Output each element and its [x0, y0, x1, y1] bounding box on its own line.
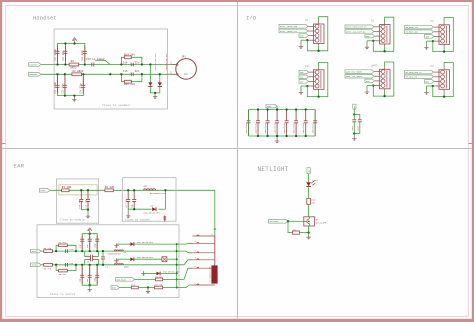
svg-text:10uF: 10uF: [351, 125, 354, 131]
svg-text:P8: P8: [431, 65, 435, 68]
wire up rail: [81, 233, 98, 253]
svg-text:DISPL_TOUCH_SCL: DISPL_TOUCH_SCL: [280, 30, 298, 33]
svg-text:ESD DF2S6.8FS: ESD DF2S6.8FS: [137, 241, 154, 244]
resistor R6: [44, 263, 53, 270]
net label EARSPKN: [29, 73, 42, 77]
svg-text:P2: P2: [431, 20, 435, 23]
wire lower mid column: [64, 74, 66, 95]
svg-text:R9 0R: R9 0R: [156, 275, 163, 278]
ground mid bottom: [146, 286, 150, 293]
net label GND: [299, 34, 309, 38]
capacitor C22: [264, 108, 270, 137]
capacitor C13: [86, 58, 105, 66]
wire pin4 X3: [427, 40, 434, 42]
svg-text:LED1: LED1: [313, 179, 319, 182]
ground handset lower: [72, 96, 76, 102]
svg-text:Handset: Handset: [33, 15, 57, 22]
wire ESD branch 2: [159, 74, 161, 82]
wire box2 bottom row: [128, 189, 166, 210]
svg-text:Close to module: Close to module: [60, 217, 85, 221]
diode row C: [141, 270, 180, 275]
svg-text:ESD DF2S6.8FS: ESD DF2S6.8FS: [144, 212, 161, 215]
capacitor C28 bridge: [85, 257, 99, 264]
svg-text:BLM15HB221SN1: BLM15HB221SN1: [150, 192, 167, 195]
capacitor C25: [292, 108, 298, 137]
wire ESD ground rail: [150, 87, 159, 93]
svg-text:100p: 100p: [94, 277, 97, 283]
EAR main box: [37, 225, 179, 298]
wire pulldown to emitter: [300, 226, 310, 234]
wire pin4 X2: [367, 40, 374, 42]
svg-text:100n/16V: 100n/16V: [302, 122, 305, 133]
wire wrap X3: [432, 18, 454, 53]
capacitor C21: [254, 108, 260, 137]
svg-text:C12 10n: C12 10n: [85, 199, 88, 208]
wire wrap X4: [306, 63, 328, 98]
wire wrap X6: [432, 63, 454, 98]
junction dot mid bottom: [109, 73, 111, 75]
capacitor C4: [54, 76, 60, 93]
svg-text:UART_RXD_MODEM: UART_RXD_MODEM: [346, 71, 363, 74]
capacitor C15: [123, 70, 140, 76]
ground cap group: [352, 134, 356, 141]
wire cap join box1: [81, 209, 89, 211]
connector X1: [308, 22, 324, 46]
junction dots lower: [56, 73, 84, 97]
net label SPKP: [31, 249, 42, 253]
svg-text:R2 0R22: R2 0R22: [73, 70, 84, 73]
svg-text:DISPL_MOSI_DISP_CS: DISPL_MOSI_DISP_CS: [346, 26, 367, 29]
wire speaker path P: [41, 250, 177, 252]
capacitor C6: [80, 76, 86, 93]
svg-text:EARSPKN: EARSPKN: [30, 73, 38, 76]
net label NETLIGHT: [269, 220, 289, 224]
ground ESD: [153, 92, 157, 99]
inductor L2: [144, 185, 167, 195]
capacitor C29 bridge: [101, 250, 105, 266]
diode row B: [114, 256, 162, 263]
ground box2: [126, 209, 130, 218]
wire top EARSPKP: [41, 64, 172, 66]
ground ear rails: [88, 285, 92, 292]
supply VCXO: [72, 38, 76, 44]
svg-text:KB_ROW1_ADC: KB_ROW1_ADC: [406, 31, 419, 34]
svg-text:C4 100n: C4 100n: [54, 81, 57, 93]
capacitor C23: [94, 236, 100, 250]
ground X3: [424, 41, 428, 50]
capacitor C30: [351, 115, 356, 134]
net label DISPL_TOUCH_SDA: [279, 25, 308, 29]
capacitor C10: [78, 189, 84, 210]
svg-text:KB_COL0_GSM_TX: KB_COL0_GSM_TX: [406, 71, 423, 74]
wire to jack pin1: [214, 190, 216, 235]
svg-text:DISPL_SCK_DISP_DC: DISPL_SCK_DISP_DC: [346, 30, 366, 33]
capacitor C31: [353, 115, 362, 135]
ground X4: [299, 86, 303, 95]
wire down rail: [81, 264, 98, 287]
wire bank end links: [249, 110, 316, 137]
svg-text:R5 47R: R5 47R: [44, 247, 52, 250]
capacitor C23: [273, 108, 279, 137]
wire jack approach P: [177, 251, 193, 253]
wire jack approach A: [177, 242, 193, 245]
capacitor C27: [312, 110, 318, 137]
svg-text:100n/16V: 100n/16V: [292, 122, 295, 133]
net label DISPL_TOUCH_SCL: [279, 29, 308, 33]
wire pin4 X1: [301, 39, 308, 41]
capacitor C24: [79, 266, 85, 283]
connector X6: [434, 68, 450, 92]
inductor L4: [106, 264, 130, 269]
ground cap bank: [275, 135, 279, 143]
diode row A: [114, 241, 176, 248]
ground X6: [424, 86, 428, 95]
svg-text:Close to socket: Close to socket: [50, 292, 75, 296]
net label MICP: [40, 189, 51, 193]
net label GND_RING: [116, 278, 156, 282]
svg-text:Close to speaker: Close to speaker: [102, 103, 131, 107]
wire lower rail: [58, 74, 84, 95]
capacitor C12: [85, 189, 91, 210]
Handset section box: [54, 29, 167, 109]
supply VBAT netlight: [307, 167, 310, 173]
wire RC loop P: [55, 245, 77, 252]
svg-text:100n/16V: 100n/16V: [273, 122, 276, 133]
svg-text:C27: C27: [86, 253, 89, 256]
capacitor C17: [131, 189, 137, 209]
capacitor C3: [81, 46, 87, 63]
wire RC loop N: [55, 264, 77, 271]
label UART: [371, 64, 378, 67]
connector X5: [374, 67, 390, 91]
svg-text:100n: 100n: [356, 125, 359, 131]
junction dots RC bottom: [120, 73, 143, 75]
svg-text:Close to socket: Close to socket: [125, 218, 150, 222]
svg-text:NETLIGHT: NETLIGHT: [270, 220, 280, 223]
wire base pulldown: [288, 221, 293, 232]
net label EARSPKP: [29, 63, 42, 67]
LED1: [306, 179, 318, 187]
svg-text:I/O: I/O: [246, 15, 257, 22]
net label UART_TXD_MODEM: [345, 75, 374, 79]
svg-text:600R: 600R: [124, 266, 130, 269]
wire upper rail: [58, 44, 85, 65]
wire cap group stem: [353, 110, 355, 115]
svg-text:NETLIGHT: NETLIGHT: [258, 166, 289, 173]
wire right bus: [176, 243, 178, 288]
svg-text:R8 2k2: R8 2k2: [59, 273, 67, 276]
net label KB_ROW0_SVC: [405, 25, 434, 29]
svg-text:KB_ROW0_SVC: KB_ROW0_SVC: [406, 26, 419, 29]
svg-text:C5 10n: C5 10n: [61, 83, 64, 93]
net label GND small: [111, 286, 131, 290]
capacitor C5: [61, 76, 67, 93]
svg-text:ESD DF2S6.8FS: ESD DF2S6.8FS: [163, 270, 180, 273]
svg-text:DISPL_TOUCH_SDA: DISPL_TOUCH_SDA: [280, 25, 298, 28]
resistor R1: [69, 60, 79, 69]
wire bottom EARSPKN: [41, 73, 172, 75]
svg-text:C15: C15: [123, 70, 128, 73]
net label KB_COL0_GSM_TX: [405, 70, 434, 74]
resistor R12: [155, 283, 177, 288]
svg-text:22n: 22n: [135, 61, 140, 64]
capacitor C26: [302, 108, 308, 137]
svg-text:C1 100n: C1 100n: [54, 48, 57, 60]
wire cap bank bottom rail: [249, 135, 316, 137]
svg-text:600R@100MHZ: 600R@100MHZ: [108, 252, 122, 255]
resistor R3: [62, 186, 72, 192]
diode D3 ESD: [144, 205, 161, 215]
svg-text:UART: UART: [371, 64, 378, 67]
junction dots RC top: [120, 63, 143, 65]
diode D1 ESD: [148, 53, 157, 87]
svg-text:C6 33p: C6 33p: [80, 83, 83, 93]
capacitor C16: [125, 189, 131, 209]
resistor R7: [59, 241, 68, 246]
resistor R4: [105, 186, 115, 192]
svg-text:SJ-43514-SMT: SJ-43514-SMT: [208, 266, 211, 282]
wire pin4 X5: [367, 85, 374, 87]
resistor R5: [44, 247, 53, 253]
svg-text:R1: R1: [71, 60, 75, 63]
svg-text:C32/DF2S6.8FS: C32/DF2S6.8FS: [154, 53, 157, 71]
capacitor C24: [283, 108, 289, 137]
ground X1: [299, 40, 303, 49]
svg-text:C14: C14: [123, 61, 128, 64]
svg-text:22n: 22n: [135, 70, 140, 73]
net label GND: [365, 79, 375, 83]
label P2: [431, 20, 435, 23]
svg-text:KB_COL1_RX: KB_COL1_RX: [406, 76, 418, 79]
net label SPKN: [31, 263, 42, 267]
svg-text:R17: R17: [293, 228, 298, 231]
pin 2: [170, 71, 178, 75]
capacitor C19: [66, 262, 74, 267]
net label INT: [299, 80, 309, 84]
wire speaker path N: [41, 264, 177, 266]
svg-text:GND_RING: GND_RING: [117, 278, 127, 281]
resistor R15: [124, 80, 135, 86]
net label GND: [425, 80, 435, 84]
pin 1: [170, 62, 178, 66]
ground netlight: [306, 233, 310, 240]
capacitor C25: [86, 266, 92, 283]
junction dots upper: [56, 42, 86, 65]
ferrite FB1: [162, 257, 177, 262]
resistor R16: [307, 198, 316, 204]
svg-text:I2C: I2C: [305, 65, 310, 68]
wire led to resistor: [308, 187, 310, 198]
svg-text:SP1: SP1: [182, 56, 187, 59]
svg-text:UART_TXD_MODEM: UART_TXD_MODEM: [346, 75, 363, 78]
connector X2: [374, 23, 390, 47]
net label GND: [365, 34, 375, 38]
svg-text:X1: X1: [305, 19, 309, 22]
EAR box2 close to socket: [122, 178, 176, 222]
wire jumper diagonal: [95, 60, 110, 64]
ground box2 right: [163, 216, 166, 222]
wire jack approach N: [177, 260, 193, 265]
jack J1: [192, 228, 217, 285]
label X2: [371, 20, 375, 23]
wire upper mid column: [64, 44, 66, 65]
net label VBAT: [266, 104, 278, 110]
resistor R11: [131, 283, 154, 288]
svg-text:100n/16V: 100n/16V: [245, 122, 248, 133]
svg-text:R12 0R: R12 0R: [155, 283, 163, 286]
net label DISPL_SCK_DISP_DC: [345, 30, 374, 34]
label X1: [305, 19, 309, 22]
wire ESD branch 1: [149, 65, 151, 83]
capacitor C21: [79, 236, 85, 250]
svg-text:ESD DF2S6.8FS: ESD DF2S6.8FS: [137, 256, 154, 259]
svg-text:R3 10R: R3 10R: [62, 186, 72, 189]
svg-text:SPKN: SPKN: [32, 264, 37, 267]
resistor R2: [72, 70, 84, 76]
wire RC loop top: [121, 57, 141, 64]
resistor R9: [156, 275, 177, 281]
wire vbat to led: [308, 174, 310, 183]
svg-text:1uF/16V: 1uF/16V: [125, 199, 128, 208]
resistor R17: [293, 228, 300, 234]
svg-text:R15 2k0: R15 2k0: [124, 82, 135, 86]
wire netlight to base: [287, 220, 304, 222]
wire wrap X1: [306, 17, 328, 52]
net label SCL: [299, 75, 309, 79]
group rect olive: [59, 185, 97, 195]
capacitor C18: [66, 248, 74, 253]
net label VDD vertical: [353, 104, 356, 110]
wire cap bank top rail: [249, 109, 316, 111]
label I2C: [305, 65, 310, 68]
wire jack approach ring: [177, 268, 193, 279]
ground X2: [365, 41, 369, 50]
svg-text:L2: L2: [144, 185, 148, 188]
resistor R8: [59, 269, 68, 276]
label P8: [431, 65, 435, 68]
capacitor C2: [62, 46, 68, 63]
connector X4: [308, 68, 324, 92]
svg-text:100n/16V: 100n/16V: [254, 122, 257, 133]
ground X5: [365, 86, 369, 95]
svg-text:4k7: 4k7: [311, 201, 316, 204]
svg-text:C10 33p: C10 33p: [78, 199, 81, 208]
svg-text:C33/DF2S6.8FS: C33/DF2S6.8FS: [165, 53, 168, 71]
transistor Q1: [304, 217, 327, 226]
supply arrow ear: [88, 228, 92, 234]
wire resistor to transistor: [308, 204, 310, 217]
wire wrap X5: [372, 62, 394, 97]
wire wrap X2: [372, 17, 394, 52]
speaker SP1: [176, 56, 197, 80]
net label UART_RXD_MODEM: [345, 70, 374, 74]
capacitor C1: [54, 46, 60, 63]
svg-text:X2: X2: [371, 20, 375, 23]
wire pin4 X6: [427, 85, 434, 87]
EAR box1 close to module: [56, 179, 98, 223]
resistor R14: [124, 52, 135, 58]
net label SDA: [299, 70, 309, 74]
svg-text:R7 2k2: R7 2k2: [59, 241, 67, 244]
wire jack approach gnd: [177, 285, 193, 288]
svg-text:C2 10n: C2 10n: [62, 50, 65, 60]
net label GND: [425, 35, 435, 39]
capacitor C26: [94, 266, 100, 283]
junction dots ESD: [149, 63, 161, 75]
ground box1: [86, 210, 90, 219]
svg-text:EARSPKP: EARSPKP: [30, 63, 39, 66]
svg-text:R14 2k0: R14 2k0: [124, 52, 135, 56]
diode D2 ESD: [158, 53, 168, 87]
svg-text:EAR: EAR: [14, 163, 25, 170]
wire pin4 X4: [301, 85, 308, 87]
svg-text:R4 10R: R4 10R: [105, 186, 115, 189]
svg-text:J1: J1: [213, 228, 217, 231]
svg-text:R6 47R: R6 47R: [44, 267, 52, 270]
capacitor C20: [245, 110, 251, 137]
svg-text:100p: 100p: [94, 242, 97, 248]
net label KB_COL1_RX: [405, 75, 434, 79]
svg-text:100n/16V: 100n/16V: [283, 122, 286, 133]
wire RC loop bottom: [121, 74, 141, 81]
inductor L3: [108, 250, 128, 255]
svg-text:C3 33p: C3 33p: [81, 50, 84, 60]
connector X3: [434, 23, 450, 47]
capacitor C27 bridge: [85, 251, 99, 259]
net label KB_ROW1_ADC: [405, 30, 434, 34]
svg-text:100n/16V: 100n/16V: [264, 122, 267, 133]
svg-text:DTC114EE: DTC114EE: [316, 221, 327, 224]
wire mic line: [50, 189, 215, 191]
capacitor C22: [86, 236, 92, 250]
capacitor C14: [123, 61, 140, 66]
svg-text:SPK: SPK: [184, 73, 189, 76]
svg-text:100n/16V: 100n/16V: [312, 122, 315, 133]
net label DISPL_MOSI_DISP_CS: [345, 25, 374, 29]
